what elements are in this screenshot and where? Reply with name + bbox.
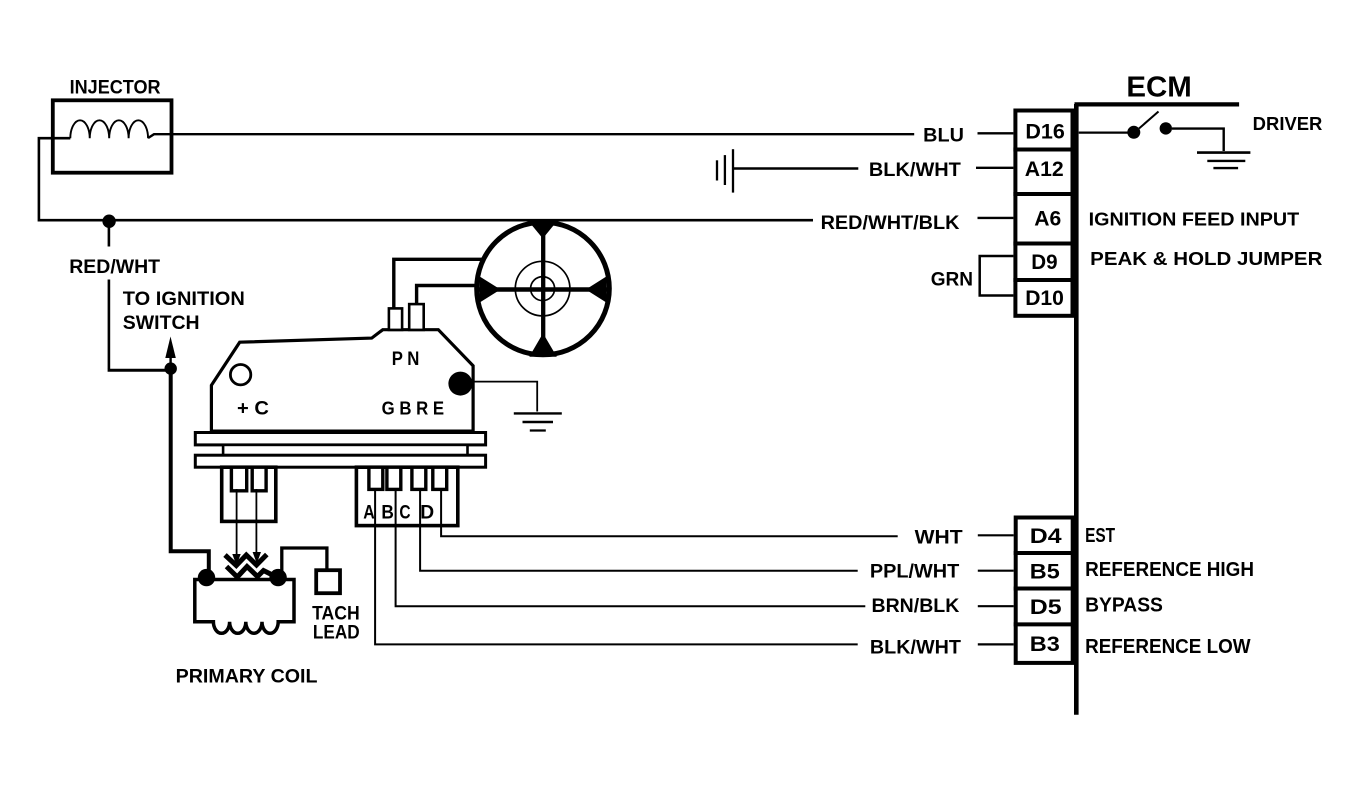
svg-text:D4: D4 — [1030, 524, 1062, 548]
wire BLU injector to ECM D16 — [148, 134, 914, 138]
svg-text:D16: D16 — [1025, 119, 1065, 143]
GRN jumper bracket D9-D10 — [980, 256, 1014, 296]
svg-text:IGNITION FEED INPUT: IGNITION FEED INPUT — [1089, 208, 1300, 229]
svg-text:INJECTOR: INJECTOR — [70, 76, 161, 98]
wire stub BLK/WHT to A12 — [976, 167, 1013, 169]
junction dot on RED/WHT/BLK — [102, 215, 115, 228]
svg-text:EST: EST — [1085, 524, 1115, 547]
distributor pickup coil — [477, 222, 610, 357]
ground symbol A12 — [717, 149, 733, 192]
wire ground to BLK/WHT label — [733, 167, 858, 170]
wire module dot to ground — [458, 382, 537, 412]
svg-text:D: D — [420, 502, 434, 524]
junction dot ignition switch branch — [165, 362, 177, 374]
wire stub BLK/WHT to B3 — [978, 643, 1014, 645]
svg-text:REFERENCE HIGH: REFERENCE HIGH — [1085, 559, 1254, 581]
wire RED/WHT vertical upper — [108, 220, 111, 247]
module left connector — [222, 467, 276, 521]
svg-text:BLU: BLU — [923, 124, 964, 146]
module right connector ABCD — [356, 467, 457, 525]
svg-text:G B R E: G B R E — [382, 398, 445, 419]
svg-text:WHT: WHT — [915, 527, 963, 549]
label TACH LEAD — [312, 604, 360, 644]
wire B BRN/BLK to D5 — [396, 489, 866, 606]
wire C PPL/WHT to B5 — [420, 489, 858, 571]
svg-text:P N: P N — [392, 348, 420, 370]
ground symbol driver — [1197, 153, 1250, 169]
primary coil left terminal dot — [198, 569, 215, 586]
module mounting hole — [230, 365, 250, 385]
wire to tach lead — [282, 548, 327, 575]
svg-text:+ C: + C — [237, 397, 269, 419]
ECM lower connector block — [1014, 518, 1075, 663]
svg-text:SWITCH: SWITCH — [123, 312, 200, 334]
wire A BLK/WHT to B3 — [375, 489, 858, 644]
svg-text:PRIMARY COIL: PRIMARY COIL — [176, 666, 318, 688]
svg-text:BRN/BLK: BRN/BLK — [872, 595, 960, 617]
svg-text:A: A — [363, 502, 375, 524]
tach lead square — [316, 570, 340, 593]
primary coil chevron lower — [227, 567, 273, 578]
ECM upper connector block — [1013, 111, 1074, 316]
ignition module body — [211, 330, 473, 431]
module top pin 2 — [409, 304, 424, 330]
svg-text:D5: D5 — [1030, 595, 1062, 619]
primary coil chevron upper — [225, 555, 267, 566]
svg-text:RED/WHT: RED/WHT — [69, 256, 160, 278]
svg-text:PEAK & HOLD JUMPER: PEAK & HOLD JUMPER — [1090, 248, 1322, 269]
driver switch contact dot right — [1160, 122, 1172, 134]
module ground terminal dot — [448, 372, 472, 396]
svg-text:LEAD: LEAD — [313, 622, 360, 643]
wire ignition feed down to primary coil — [171, 368, 209, 571]
wire module pin P to pickup coil — [394, 259, 486, 308]
wire to ignition switch horizontal — [108, 369, 171, 372]
svg-text:DRIVER: DRIVER — [1253, 114, 1323, 134]
wire D16 to driver switch — [1079, 131, 1129, 133]
wire D WHT to D4 — [441, 489, 898, 536]
svg-text:D9: D9 — [1031, 250, 1057, 274]
svg-text:PPL/WHT: PPL/WHT — [870, 561, 959, 583]
injector J1 — [53, 100, 172, 172]
svg-text:A6: A6 — [1034, 206, 1061, 230]
svg-text:C: C — [399, 502, 410, 524]
label TO IGNITION SWITCH — [123, 288, 245, 334]
svg-text:GRN: GRN — [931, 268, 973, 290]
primary coil right terminal dot — [269, 569, 286, 586]
svg-text:B5: B5 — [1030, 560, 1060, 584]
svg-text:TO IGNITION: TO IGNITION — [123, 288, 245, 310]
wire stub RED/WHT/BLK to A6 — [978, 217, 1014, 219]
wire stub PPL/WHT to B5 — [978, 570, 1014, 572]
svg-text:ECM: ECM — [1126, 72, 1191, 104]
svg-text:BLK/WHT: BLK/WHT — [870, 637, 961, 659]
svg-text:REFERENCE LOW: REFERENCE LOW — [1085, 636, 1251, 658]
module mounting plate lower — [195, 455, 485, 467]
ECM vertical line — [1074, 104, 1079, 715]
svg-text:BYPASS: BYPASS — [1085, 595, 1163, 617]
svg-text:D10: D10 — [1025, 286, 1064, 310]
wire RED/WHT vertical lower — [108, 280, 111, 370]
wire stub BLU to D16 — [978, 132, 1014, 134]
svg-text:B: B — [381, 502, 394, 524]
wire stub WHT to D4 — [978, 534, 1014, 536]
module mounting plate upper — [195, 433, 485, 445]
ECM top line — [1075, 102, 1240, 106]
module top pin 1 — [389, 308, 402, 330]
driver switch contact dot left — [1127, 126, 1140, 139]
svg-text:BLK/WHT: BLK/WHT — [869, 159, 961, 181]
primary coil box — [195, 580, 294, 634]
svg-text:RED/WHT/BLK: RED/WHT/BLK — [821, 212, 960, 234]
wire module pin N to pickup coil — [417, 286, 480, 305]
arrow to ignition switch — [165, 337, 176, 368]
wire injector left lead + RED/WHT/BLK run — [39, 138, 813, 220]
svg-text:B3: B3 — [1030, 632, 1060, 656]
driver switch lever — [1139, 112, 1159, 129]
module mounting plate middle strip — [223, 445, 467, 455]
wire switch to ground — [1172, 129, 1224, 151]
ground symbol below module — [514, 413, 562, 430]
svg-text:TACH: TACH — [312, 604, 360, 625]
wire stub BRN/BLK to D5 — [978, 605, 1014, 607]
svg-text:A12: A12 — [1025, 157, 1064, 181]
wires left connector to primary coil chevrons — [237, 489, 257, 560]
